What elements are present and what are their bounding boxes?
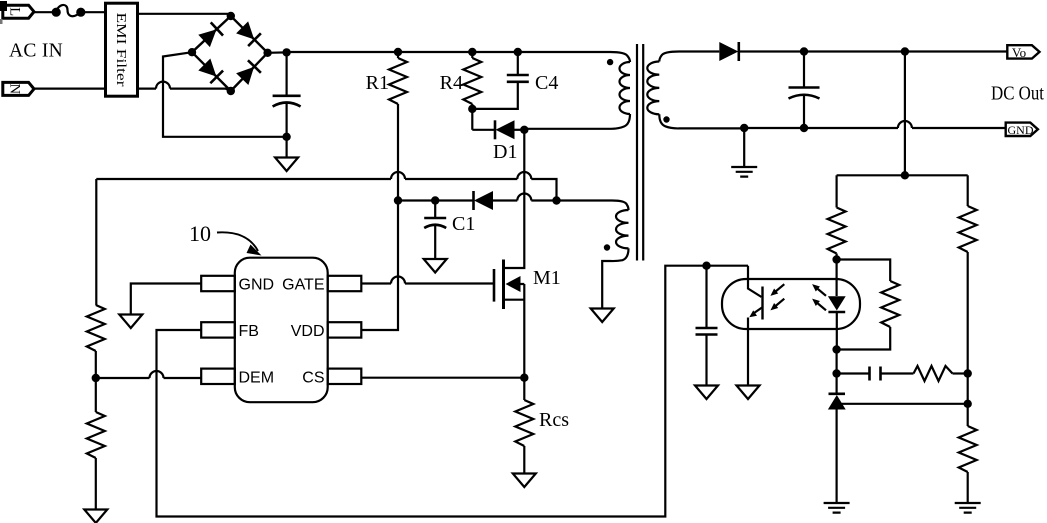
svg-text:10: 10 (189, 221, 211, 246)
svg-text:GATE: GATE (282, 277, 324, 294)
svg-text:M1: M1 (533, 267, 561, 289)
svg-text:D1: D1 (493, 141, 517, 163)
svg-text:AC IN: AC IN (9, 41, 63, 62)
svg-text:L: L (6, 7, 22, 16)
svg-text:VDD: VDD (291, 323, 325, 340)
svg-text:CS: CS (302, 370, 324, 387)
svg-text:Vo: Vo (1012, 45, 1026, 60)
svg-text:C1: C1 (452, 213, 475, 235)
svg-text:N: N (7, 84, 23, 95)
svg-text:Rcs: Rcs (539, 409, 569, 431)
svg-text:DEM: DEM (239, 370, 275, 387)
svg-text:C4: C4 (535, 72, 558, 94)
svg-text:GND: GND (1008, 125, 1034, 137)
svg-text:DC Out: DC Out (991, 84, 1044, 105)
svg-text:GND: GND (239, 277, 275, 294)
svg-text:R4: R4 (440, 72, 463, 94)
svg-text:R1: R1 (366, 72, 389, 94)
svg-text:FB: FB (239, 323, 259, 340)
svg-text:EMI Filter: EMI Filter (114, 13, 129, 88)
